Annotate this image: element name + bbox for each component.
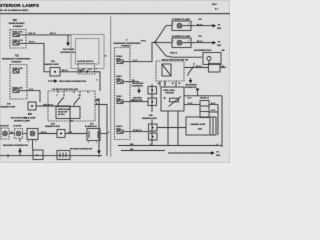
- svg-text:296: 296: [222, 50, 225, 52]
- header joint D36: [50, 68, 60, 77]
- svg-text:RD BK 0.5: RD BK 0.5: [133, 130, 142, 132]
- relay coil: [162, 64, 171, 76]
- wire to connector box: [184, 103, 200, 105]
- relay switch 1: [58, 97, 64, 104]
- svg-text:E3: E3: [218, 24, 220, 26]
- lighting switch pin stub: [95, 71, 101, 73]
- header joint D28 label: [142, 115, 158, 120]
- fuse F6: [116, 76, 139, 83]
- svg-text:SEE EARTH DISTRIBUTION: SEE EARTH DISTRIBUTION: [3, 144, 28, 147]
- svg-text:SEE INTERIOR: SEE INTERIOR: [186, 85, 198, 87]
- RH rear fog lamp label: [172, 35, 202, 38]
- svg-text:41: 41: [105, 55, 107, 58]
- svg-text:HEADER JOINT: HEADER JOINT: [142, 117, 158, 120]
- wire: [38, 132, 57, 134]
- wire to multifunction unit: [97, 72, 101, 91]
- fuse F5: [116, 55, 130, 63]
- earth stub: [3, 139, 28, 156]
- arrow see power distribution: [48, 79, 86, 83]
- svg-text:GND: GND: [217, 28, 222, 30]
- svg-text:295: 295: [199, 36, 202, 38]
- svg-text:GND: GND: [216, 155, 221, 157]
- multifunction unit (right): [156, 61, 184, 81]
- fuse F2: [13, 39, 27, 45]
- svg-text:ALARM ECU: ALARM ECU: [85, 125, 98, 128]
- lamp pin numbers: [28, 141, 97, 144]
- lamp L1: [1, 128, 9, 139]
- fuse F7: [116, 96, 148, 103]
- wire fuse1 to power distribution: [26, 33, 71, 41]
- wire: [9, 132, 15, 134]
- multifunction unit (left): [48, 91, 95, 121]
- under bonnet fusebox 802 label: [9, 20, 26, 28]
- wire fuse2 to header joint D36: [26, 41, 50, 71]
- svg-text:FUSEBOX: FUSEBOX: [13, 26, 23, 28]
- svg-text:HEADER JOINT: HEADER JOINT: [44, 63, 60, 66]
- page divider: [110, 17, 112, 158]
- svg-text:INTERIOR LAMP: INTERIOR LAMP: [14, 119, 30, 122]
- fan wires to fog lamps: [155, 26, 172, 43]
- instrument pack label: [170, 49, 225, 55]
- svg-text:4: 4: [150, 143, 151, 146]
- bottom row wire: [0, 155, 102, 157]
- svg-text:PASSENGER COMPARTMENT: PASSENGER COMPARTMENT: [2, 58, 31, 61]
- svg-text:LH DOOR: LH DOOR: [13, 126, 22, 128]
- junction node B: [130, 41, 156, 62]
- header joint D36b: [28, 102, 36, 110]
- delay unit box: [56, 107, 80, 119]
- RH rear fog lamp: [172, 38, 194, 48]
- battery box: [57, 151, 70, 160]
- relay switch 2: [74, 97, 80, 104]
- passenger compartment fusebox label (right): [114, 40, 142, 48]
- svg-text:RD 0.5: RD 0.5: [196, 66, 202, 68]
- svg-text:E2: E2: [217, 151, 219, 153]
- connector outputs: [209, 103, 218, 135]
- lamp row labels: [0, 114, 98, 128]
- svg-text:4: 4: [217, 143, 218, 146]
- svg-text:LIGHTING SWITCH: LIGHTING SWITCH: [77, 61, 94, 63]
- svg-text:85: 85: [172, 83, 174, 85]
- svg-text:SEE POWER DISTRIBUTION: SEE POWER DISTRIBUTION: [59, 81, 86, 83]
- wire to earth E3b: [194, 41, 222, 47]
- svg-text:D28: D28: [130, 149, 133, 151]
- MFU to connector: [196, 64, 226, 73]
- svg-text:DISTRIBUTION: DISTRIBUTION: [61, 52, 76, 54]
- relay switch: [184, 63, 209, 76]
- lamp L2: [15, 129, 23, 139]
- passenger compartment fusebox (left): [10, 65, 27, 100]
- LH rear fog lamp: [172, 21, 194, 31]
- MFU pin stubs: [159, 81, 161, 87]
- svg-text:(D6): (D6): [198, 129, 202, 131]
- svg-text:DISTRIBUTION: DISTRIBUTION: [185, 87, 197, 89]
- see-interior note column: [131, 83, 144, 102]
- arrow below MFU: [185, 78, 199, 96]
- lighting switch box: [71, 35, 104, 69]
- earth note centre: [70, 128, 101, 157]
- header joint D28 bus: [148, 84, 186, 146]
- svg-text:FUSEBOX: FUSEBOX: [12, 61, 22, 63]
- svg-text:5: 5: [97, 80, 98, 82]
- wire D36b to lamps: [40, 104, 70, 133]
- wire to earth E3: [194, 24, 222, 30]
- instrument pack: [203, 53, 221, 65]
- svg-text:HEADER JOINT: HEADER JOINT: [45, 125, 61, 128]
- svg-text:4: 4: [96, 68, 97, 71]
- header joint D36 label: [44, 61, 60, 66]
- panel rheostat U3: [161, 87, 184, 146]
- title rule: [0, 13, 230, 15]
- connector box: [200, 101, 209, 118]
- arrow power distribution: [67, 41, 69, 43]
- passenger compartment fusebox label (left): [2, 55, 31, 63]
- header joint D36b label: [1, 104, 17, 109]
- svg-text:E3: E3: [218, 41, 220, 43]
- alarm ecu box: [87, 129, 100, 141]
- wire: [100, 131, 109, 134]
- fuse F1: [13, 31, 27, 37]
- svg-text:803: 803: [70, 120, 73, 122]
- svg-text:GND BK 0.5: GND BK 0.5: [200, 98, 209, 100]
- svg-text:765 MULTI-FUNCTION UNIT: 765 MULTI-FUNCTION UNIT: [52, 89, 79, 91]
- svg-text:804: 804: [24, 116, 27, 119]
- svg-text:HEADER JOINT: HEADER JOINT: [1, 105, 17, 108]
- svg-text:SEE EARTH DISTRIBUTION: SEE EARTH DISTRIBUTION: [70, 147, 93, 150]
- svg-text:E1: E1: [36, 155, 38, 157]
- svg-text:HEADER JOINT: HEADER JOINT: [191, 123, 207, 126]
- svg-text:(30 SEC): (30 SEC): [58, 114, 65, 116]
- svg-text:(INC. SW. ILLUMINATION LAMPS): (INC. SW. ILLUMINATION LAMPS): [0, 9, 29, 12]
- switch symbols: [78, 64, 95, 75]
- svg-text:RH DOOR: RH DOOR: [0, 126, 9, 128]
- svg-text:RH POWER: RH POWER: [63, 49, 75, 51]
- svg-text:MG7: MG7: [212, 4, 218, 6]
- bottom right wire: [168, 151, 221, 156]
- svg-text:INSTRUMENT PACK: INSTRUMENT PACK: [194, 49, 212, 52]
- svg-text:S/P B: S/P B: [141, 41, 146, 43]
- wire fuse4 to header joint D36b: [27, 89, 40, 102]
- under bonnet fusebox 802: [10, 30, 26, 49]
- svg-text:UNDER BONNET: UNDER BONNET: [9, 23, 26, 25]
- svg-text:D28: D28: [130, 144, 133, 146]
- box E1: [33, 150, 43, 160]
- header joint D36c: [57, 130, 65, 138]
- svg-text:LH REAR FOG LAMP: LH REAR FOG LAMP: [172, 18, 191, 21]
- passenger compartment fusebox (right): [115, 48, 131, 140]
- svg-text:296: 296: [199, 19, 202, 21]
- header joint D6 box: [186, 117, 216, 135]
- svg-text:86: 86: [179, 83, 181, 85]
- svg-text:GND 0.5: GND 0.5: [170, 53, 177, 55]
- fuse F8: [116, 126, 149, 133]
- svg-text:RH REAR FOG LAMP: RH REAR FOG LAMP: [172, 35, 191, 38]
- LH rear fog lamp label: [172, 18, 202, 21]
- fuse F3: [13, 67, 24, 73]
- wire lamp to earth bus: [32, 140, 34, 151]
- fuse F4: [13, 86, 28, 92]
- svg-text:NTERIOR LAMPS: NTERIOR LAMPS: [0, 3, 39, 8]
- svg-text:DISTRIBUTION: DISTRIBUTION: [131, 100, 143, 102]
- bus wires bottom: [118, 143, 222, 146]
- svg-text:4: 4: [108, 131, 109, 134]
- wire: [65, 132, 87, 134]
- lamp L3 interior: [27, 129, 38, 140]
- MFU output wires: [95, 99, 101, 128]
- MFU pin numbers: [158, 83, 181, 85]
- wire D36 to switch area: [60, 70, 100, 72]
- wire: [23, 133, 28, 135]
- svg-text:SEE INTERIOR: SEE INTERIOR: [132, 83, 144, 85]
- wire row to earth: [184, 96, 222, 147]
- svg-text:30: 30: [158, 83, 160, 85]
- svg-text:GND: GND: [217, 45, 222, 47]
